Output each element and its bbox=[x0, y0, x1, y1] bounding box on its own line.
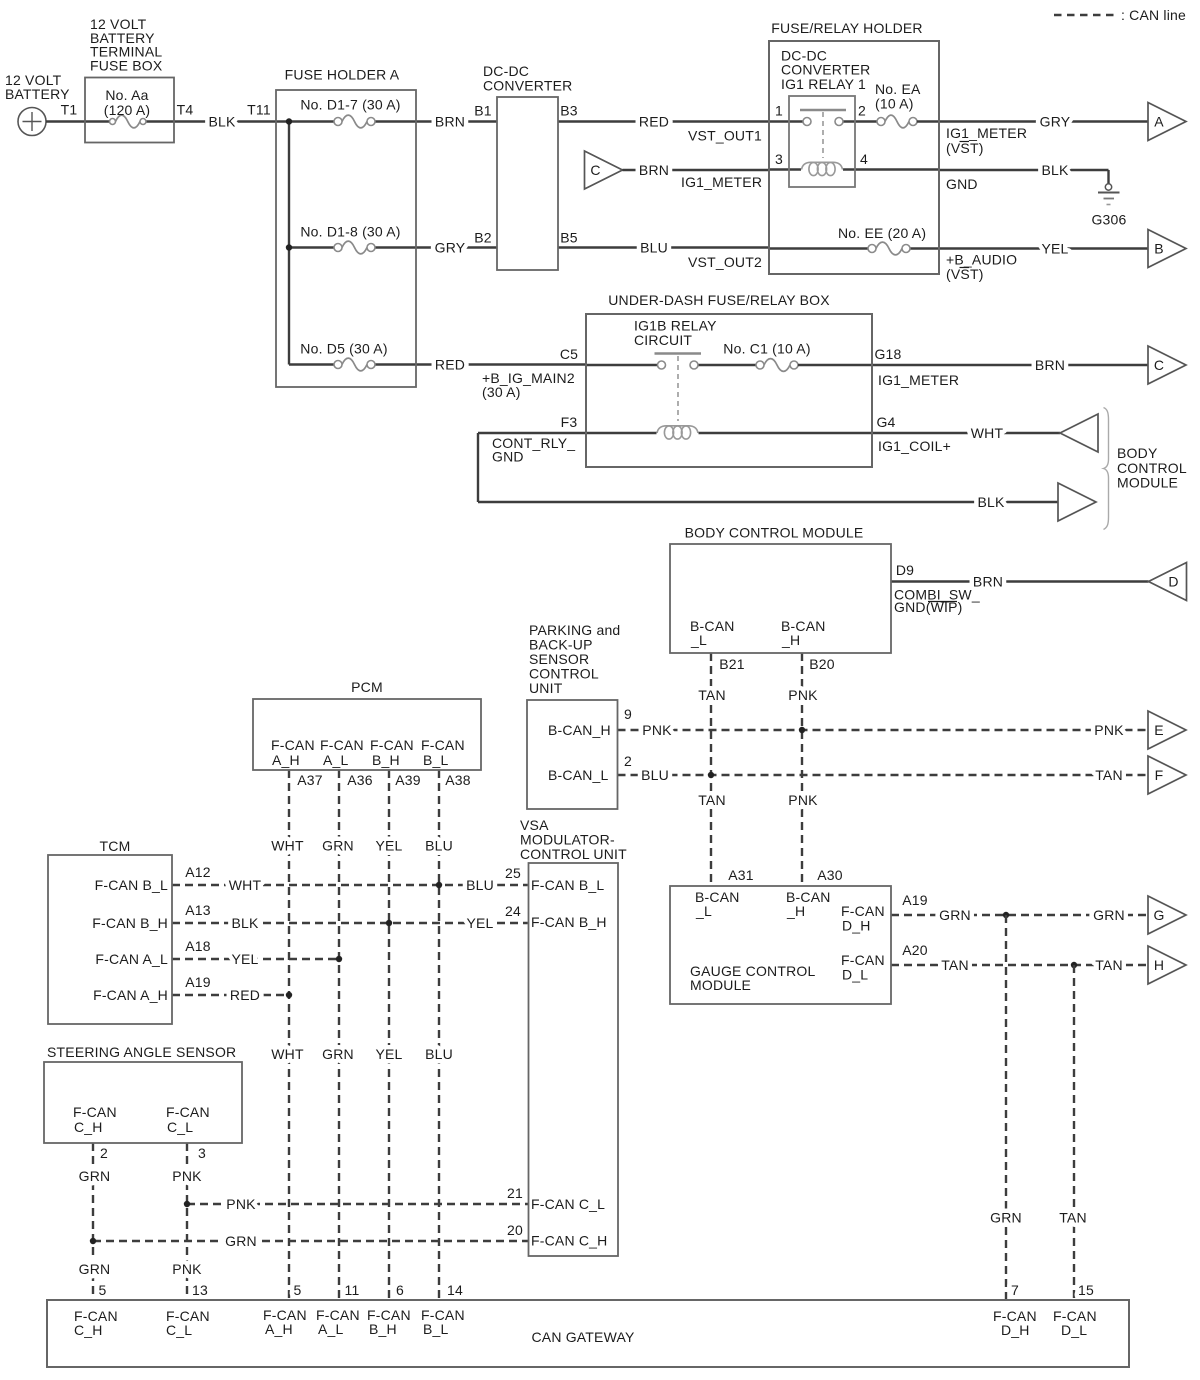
svg-text:F-CAN: F-CAN bbox=[320, 737, 364, 753]
svg-text:: CAN line: : CAN line bbox=[1121, 7, 1186, 23]
junction T11 bus top bbox=[286, 118, 292, 124]
fuse box: 12 VOLT BATTERY TERMINAL FUSE BOX bbox=[85, 16, 174, 143]
svg-text:GRY: GRY bbox=[1040, 114, 1071, 130]
TCM pin F-CAN B_H label bbox=[92, 915, 168, 931]
wire WHT A37 vertical CAN bus bbox=[271, 770, 323, 1301]
CAN GATEWAY pin 11 F-CAN A_L label bbox=[316, 1282, 360, 1337]
junction GRN branch bbox=[1003, 912, 1009, 918]
svg-text:25: 25 bbox=[505, 865, 521, 881]
wire TAN B21 (B-CAN_L vertical) bbox=[698, 653, 745, 886]
CAN GATEWAY box bbox=[47, 1300, 1129, 1367]
svg-text:D_L: D_L bbox=[1061, 1322, 1087, 1338]
svg-text:BLU: BLU bbox=[640, 240, 668, 256]
CAN GATEWAY pin 13 F-CAN C_L label bbox=[166, 1308, 210, 1338]
svg-text:YEL: YEL bbox=[1041, 241, 1068, 257]
svg-text:TAN: TAN bbox=[698, 687, 726, 703]
svg-text:BLK: BLK bbox=[208, 114, 236, 130]
wire A12 WHT/BLU to VSA pin 25 F-CAN B_L bbox=[172, 864, 529, 893]
wire BLK GND to ground G306 bbox=[939, 162, 1109, 192]
pin 1 bbox=[775, 103, 783, 119]
svg-text:No. D5 (30 A): No. D5 (30 A) bbox=[300, 341, 387, 357]
PCM pin F-CAN A_H label bbox=[271, 737, 315, 768]
svg-text:A13: A13 bbox=[185, 902, 211, 918]
svg-text:GRN: GRN bbox=[1093, 907, 1125, 923]
svg-text:B1: B1 bbox=[474, 103, 492, 119]
svg-text:6: 6 bbox=[396, 1282, 404, 1298]
svg-text:GRN: GRN bbox=[322, 1046, 354, 1062]
svg-text:A36: A36 bbox=[347, 772, 373, 788]
svg-text:No. D1-8 (30 A): No. D1-8 (30 A) bbox=[300, 224, 400, 240]
svg-text:VST_OUT1: VST_OUT1 bbox=[688, 128, 762, 144]
svg-text:A39: A39 bbox=[395, 772, 421, 788]
svg-text:H: H bbox=[1154, 957, 1164, 973]
wire BLU A38 vertical CAN bus bbox=[425, 770, 471, 1301]
svg-text:B_H: B_H bbox=[372, 752, 400, 768]
svg-text:A20: A20 bbox=[902, 942, 928, 958]
svg-text:A_L: A_L bbox=[323, 752, 349, 768]
junction PNK branch bbox=[184, 1201, 190, 1207]
svg-text:21: 21 bbox=[507, 1185, 523, 1201]
svg-text:C: C bbox=[590, 162, 600, 178]
relay armature dashed link bbox=[822, 112, 824, 158]
CAN GATEWAY pin 14 F-CAN B_L label bbox=[421, 1282, 465, 1337]
svg-text:F-CAN B_H: F-CAN B_H bbox=[92, 915, 168, 931]
svg-text:B-CAN_L: B-CAN_L bbox=[548, 767, 609, 783]
svg-text:_H: _H bbox=[786, 903, 805, 919]
junction PNK/B20 bbox=[799, 727, 805, 733]
svg-text:RED: RED bbox=[230, 987, 260, 1003]
svg-text:RED: RED bbox=[639, 114, 669, 130]
wire BRN IG1_METER from connector C to fuse/relay holder bbox=[623, 162, 770, 190]
svg-text:C_H: C_H bbox=[74, 1322, 103, 1338]
svg-text:MODULE: MODULE bbox=[1117, 475, 1178, 491]
PARKING pin B-CAN_H label bbox=[548, 722, 611, 738]
svg-text:TAN: TAN bbox=[1095, 767, 1123, 783]
svg-text:GRN: GRN bbox=[939, 907, 971, 923]
svg-text:C_H: C_H bbox=[74, 1119, 103, 1135]
svg-text:A19: A19 bbox=[902, 892, 928, 908]
svg-text:2: 2 bbox=[624, 753, 632, 769]
CAN GATEWAY pin 7 F-CAN D_H label bbox=[993, 1308, 1037, 1338]
svg-text:F-CAN B_H: F-CAN B_H bbox=[531, 914, 607, 930]
svg-text:VST_OUT2: VST_OUT2 bbox=[688, 254, 762, 270]
battery 12 VOLT BATTERY bbox=[5, 72, 70, 136]
svg-text:F-CAN: F-CAN bbox=[166, 1104, 210, 1120]
svg-text:F-CAN: F-CAN bbox=[73, 1104, 117, 1120]
connector H bbox=[1148, 946, 1186, 984]
svg-text:RED: RED bbox=[435, 357, 465, 373]
svg-text:D: D bbox=[1168, 574, 1178, 590]
svg-text:F3: F3 bbox=[561, 414, 578, 430]
CAN GATEWAY pin 5 F-CAN C_H label bbox=[74, 1308, 118, 1338]
svg-text:A31: A31 bbox=[728, 867, 754, 883]
svg-text:BODY: BODY bbox=[1117, 445, 1158, 461]
junction TAN/B21 bbox=[708, 772, 714, 778]
svg-text:C_L: C_L bbox=[166, 1322, 192, 1338]
svg-text:F: F bbox=[1155, 767, 1164, 783]
svg-text:PNK: PNK bbox=[642, 722, 672, 738]
wire GRN pin 2 vertical to CAN GATEWAY pin 5 bbox=[79, 1143, 111, 1301]
GAUGE pin B-CAN_L label bbox=[695, 889, 740, 919]
relay IG1B coil wire F3-G4 bbox=[586, 426, 872, 439]
junction A19/WHT bus bbox=[286, 992, 292, 998]
svg-text:D_H: D_H bbox=[1001, 1322, 1030, 1338]
CAN GATEWAY pin 6 F-CAN B_H label bbox=[367, 1282, 411, 1337]
junction TAN branch bbox=[1071, 962, 1077, 968]
svg-text:F-CAN C_H: F-CAN C_H bbox=[531, 1233, 607, 1249]
svg-text:IG1 RELAY 1: IG1 RELAY 1 bbox=[781, 76, 866, 92]
svg-text:BATTERY: BATTERY bbox=[5, 86, 70, 102]
legend: CAN line dashed sample bbox=[1054, 7, 1186, 23]
svg-text:F-CAN A_H: F-CAN A_H bbox=[93, 987, 168, 1003]
svg-text:PCM: PCM bbox=[351, 679, 383, 695]
svg-text:BLU: BLU bbox=[425, 1046, 453, 1062]
svg-text:FUSE HOLDER A: FUSE HOLDER A bbox=[285, 67, 400, 83]
svg-text:PNK: PNK bbox=[172, 1168, 202, 1184]
svg-text:G18: G18 bbox=[874, 346, 901, 362]
node D9 wire BRN COMBI_SW_GND(WIP) to connector D bbox=[891, 562, 1149, 615]
svg-text:B21: B21 bbox=[719, 656, 745, 672]
svg-text:BLU: BLU bbox=[641, 767, 669, 783]
svg-text:WHT: WHT bbox=[271, 1046, 304, 1062]
svg-text:BLU: BLU bbox=[425, 838, 453, 854]
wire GRN A36 vertical CAN bus bbox=[322, 770, 373, 1301]
node G18 wire BRN IG1_METER to connector C bbox=[872, 346, 1148, 388]
relay coil pins 3-4 bbox=[769, 162, 939, 175]
svg-text:BLK: BLK bbox=[1041, 162, 1069, 178]
svg-text:A37: A37 bbox=[297, 772, 323, 788]
wire YEL +B_AUDIO (VST) to connector B bbox=[939, 241, 1148, 283]
relay IG1B contact bbox=[586, 354, 756, 370]
TCM pin F-CAN B_L label bbox=[95, 877, 168, 893]
pin 4 bbox=[860, 151, 868, 167]
wire GRN vertical to CAN GATEWAY pin 7 bbox=[990, 915, 1022, 1301]
connector triangle WHT (BCM) bbox=[1060, 414, 1098, 452]
svg-text:14: 14 bbox=[447, 1282, 463, 1298]
connector D bbox=[1149, 563, 1187, 601]
VSA pin 25 F-CAN B_L label bbox=[531, 877, 604, 893]
svg-text:F-CAN: F-CAN bbox=[271, 737, 315, 753]
svg-text:PNK: PNK bbox=[172, 1261, 202, 1277]
VSA pin 21 F-CAN C_L label bbox=[531, 1196, 605, 1212]
relay contact pins 1-2 bbox=[769, 110, 877, 126]
svg-text:No. D1-7 (30 A): No. D1-7 (30 A) bbox=[300, 97, 400, 113]
svg-text:BLK: BLK bbox=[231, 915, 259, 931]
svg-text:B_L: B_L bbox=[423, 1321, 449, 1337]
svg-text:E: E bbox=[1154, 722, 1164, 738]
wire BLU B-CAN_L pin 2 to connector F (TAN) bbox=[618, 753, 1149, 783]
svg-text:IG1_METER: IG1_METER bbox=[946, 125, 1027, 141]
svg-text:(120 A): (120 A) bbox=[104, 102, 151, 118]
PARKING pin B-CAN_L label bbox=[548, 767, 609, 783]
svg-text:A12: A12 bbox=[185, 864, 211, 880]
VSA MODULATOR-CONTROL UNIT box bbox=[520, 817, 627, 1256]
pin A30 bbox=[817, 867, 843, 883]
fuse No. EE (20 A) on VST_OUT2 line bbox=[769, 225, 939, 255]
svg-text:A: A bbox=[1154, 114, 1164, 130]
svg-text:PNK: PNK bbox=[788, 792, 818, 808]
wire BRN fuse holder A to DC-DC B1 bbox=[416, 103, 497, 130]
svg-text:IG1_METER: IG1_METER bbox=[878, 372, 959, 388]
wire PNK pin 3 vertical to CAN GATEWAY pin 13 bbox=[172, 1143, 208, 1301]
svg-text:CIRCUIT: CIRCUIT bbox=[634, 332, 692, 348]
connector A bbox=[1148, 103, 1186, 141]
svg-text:No. EE (20 A): No. EE (20 A) bbox=[838, 225, 926, 241]
junction A18/GRN bus bbox=[336, 956, 342, 962]
PCM pin F-CAN B_H label bbox=[370, 737, 414, 768]
svg-text:A_H: A_H bbox=[272, 752, 300, 768]
svg-text:WHT: WHT bbox=[971, 425, 1004, 441]
pin A31 bbox=[728, 867, 754, 883]
ground G306 bbox=[1091, 184, 1126, 228]
wire RED B3 VST_OUT1 to fuse/relay holder bbox=[558, 103, 769, 144]
svg-text:20: 20 bbox=[507, 1222, 523, 1238]
junction A13/YEL bus bbox=[386, 920, 392, 926]
svg-text:B2: B2 bbox=[474, 230, 492, 246]
svg-text:15: 15 bbox=[1078, 1282, 1094, 1298]
svg-text:GRN: GRN bbox=[79, 1168, 111, 1184]
wire GRN to VSA pin 20 F-CAN C_H bbox=[93, 1222, 529, 1249]
svg-text:IG1_COIL+: IG1_COIL+ bbox=[878, 438, 951, 454]
FUSE HOLDER A box bbox=[276, 67, 416, 388]
svg-text:B3: B3 bbox=[560, 103, 578, 119]
svg-text:T4: T4 bbox=[177, 102, 194, 118]
svg-text:T1: T1 bbox=[61, 102, 78, 118]
GAUGE pin F-CAN D_L label bbox=[841, 952, 885, 983]
IG1B RELAY CIRCUIT label bbox=[634, 318, 717, 349]
svg-text:3: 3 bbox=[775, 151, 783, 167]
svg-text:2: 2 bbox=[100, 1145, 108, 1161]
svg-text:TAN: TAN bbox=[1059, 1210, 1087, 1226]
svg-text:GRN: GRN bbox=[322, 838, 354, 854]
BCM pin B-CAN_H label bbox=[781, 618, 826, 648]
TCM pin F-CAN A_L label bbox=[95, 951, 168, 967]
svg-text:F-CAN: F-CAN bbox=[421, 737, 465, 753]
svg-text:WHT: WHT bbox=[271, 838, 304, 854]
svg-text:PNK: PNK bbox=[788, 687, 818, 703]
wire T4 to T11, BLK net bbox=[174, 102, 289, 130]
svg-text:9: 9 bbox=[624, 706, 632, 722]
svg-text:_L: _L bbox=[695, 903, 712, 919]
pin 3 bbox=[775, 151, 783, 167]
svg-text:G: G bbox=[1153, 907, 1164, 923]
wire PNK B-CAN_H pin 9 to connector E bbox=[618, 706, 1149, 738]
svg-text:F-CAN C_L: F-CAN C_L bbox=[531, 1196, 605, 1212]
svg-text:YEL: YEL bbox=[231, 951, 258, 967]
svg-text:B: B bbox=[1154, 241, 1164, 257]
TCM pin F-CAN A_H label bbox=[93, 987, 168, 1003]
wire BLU B5 VST_OUT2 to fuse/relay holder bbox=[558, 230, 769, 271]
svg-text:GND: GND bbox=[946, 176, 978, 192]
wire A13 BLK/YEL to VSA pin 24 F-CAN B_H bbox=[172, 902, 529, 931]
svg-text:FUSE BOX: FUSE BOX bbox=[90, 58, 163, 74]
junction bus middle bbox=[286, 244, 292, 250]
svg-text:(VST): (VST) bbox=[946, 140, 984, 156]
connector E bbox=[1148, 711, 1186, 749]
svg-text:(30 A): (30 A) bbox=[482, 384, 521, 400]
svg-text:5: 5 bbox=[294, 1282, 302, 1298]
svg-text:4: 4 bbox=[860, 151, 868, 167]
svg-text:A18: A18 bbox=[185, 938, 211, 954]
svg-text:GND: GND bbox=[492, 449, 524, 465]
svg-text:11: 11 bbox=[345, 1282, 360, 1298]
svg-text:B5: B5 bbox=[560, 230, 578, 246]
CAN GATEWAY pin 15 F-CAN D_L label bbox=[1053, 1308, 1097, 1338]
svg-text:13: 13 bbox=[192, 1282, 208, 1298]
svg-text:C: C bbox=[1154, 357, 1164, 373]
svg-text:UNDER-DASH FUSE/RELAY BOX: UNDER-DASH FUSE/RELAY BOX bbox=[608, 292, 830, 308]
fuse No. Aa (120 A) bbox=[85, 87, 174, 128]
DC-DC CONVERTER IG1 RELAY 1 label bbox=[781, 48, 870, 93]
svg-text:GRY: GRY bbox=[435, 240, 466, 256]
svg-text:CONTROL UNIT: CONTROL UNIT bbox=[520, 846, 627, 862]
junction A12/BLU bus bbox=[436, 882, 442, 888]
svg-text:No. Aa: No. Aa bbox=[105, 87, 148, 103]
CAN GATEWAY pin 5 F-CAN A_H label bbox=[263, 1282, 307, 1337]
wire GRY fuse holder A to DC-DC B2 bbox=[416, 230, 497, 256]
BCM pin B-CAN_L label bbox=[690, 618, 735, 648]
svg-text:A38: A38 bbox=[445, 772, 471, 788]
svg-text:_H: _H bbox=[781, 632, 800, 648]
wire CONT_RLY_GND F3 loop to BLK bbox=[478, 414, 1058, 510]
connector F bbox=[1148, 756, 1186, 794]
svg-text:F-CAN A_L: F-CAN A_L bbox=[95, 951, 168, 967]
PCM box bbox=[253, 679, 481, 770]
svg-text:D_L: D_L bbox=[842, 967, 868, 983]
svg-text:C5: C5 bbox=[560, 346, 578, 362]
svg-text:D9: D9 bbox=[896, 562, 914, 578]
TCM box bbox=[48, 838, 172, 1024]
fuse No. C1 (10 A) bbox=[723, 341, 872, 372]
svg-text:2: 2 bbox=[858, 103, 866, 119]
svg-text:BLU: BLU bbox=[466, 877, 494, 893]
fuse No. EA (10 A) bbox=[875, 81, 939, 128]
STEERING pin F-CAN C_H label bbox=[73, 1104, 117, 1135]
UNDER-DASH FUSE/RELAY BOX bbox=[586, 292, 872, 467]
svg-text:(VST): (VST) bbox=[946, 266, 984, 282]
svg-text:TCM: TCM bbox=[100, 838, 131, 854]
svg-text:T11: T11 bbox=[247, 102, 271, 118]
svg-text:F-CAN B_L: F-CAN B_L bbox=[95, 877, 168, 893]
STEERING pin F-CAN C_L label bbox=[166, 1104, 210, 1135]
svg-text:BODY CONTROL MODULE: BODY CONTROL MODULE bbox=[685, 525, 864, 541]
svg-text:B-CAN_H: B-CAN_H bbox=[548, 722, 611, 738]
relay IG1B armature dashed link bbox=[677, 356, 679, 421]
svg-text:TAN: TAN bbox=[698, 792, 726, 808]
svg-text:CAN GATEWAY: CAN GATEWAY bbox=[531, 1329, 635, 1345]
brace BODY CONTROL MODULE bbox=[1104, 408, 1187, 530]
svg-text:YEL: YEL bbox=[375, 838, 402, 854]
wire TAN A20 F-CAN D_L to connector H bbox=[891, 942, 1148, 973]
svg-text:1: 1 bbox=[775, 103, 783, 119]
connector G bbox=[1148, 896, 1186, 934]
fuse holder A internal bus wire bbox=[288, 122, 290, 365]
wire GRY IG1_METER (VST) to connector A bbox=[939, 114, 1148, 157]
connector C (from arrow) bbox=[585, 151, 623, 189]
svg-text:GRN: GRN bbox=[225, 1233, 257, 1249]
svg-text:7: 7 bbox=[1011, 1282, 1019, 1298]
svg-text:G4: G4 bbox=[876, 414, 895, 430]
svg-text:BRN: BRN bbox=[639, 162, 669, 178]
svg-text:3: 3 bbox=[198, 1145, 206, 1161]
node G4 wire WHT IG1_COIL+ to body control module bbox=[872, 414, 1060, 454]
fuse No. D1-7 (30 A) bbox=[289, 97, 416, 128]
svg-text:F-CAN: F-CAN bbox=[370, 737, 414, 753]
svg-text:IG1_METER: IG1_METER bbox=[681, 174, 762, 190]
connector triangle BLK (BCM) bbox=[1058, 483, 1096, 521]
svg-text:A_H: A_H bbox=[265, 1321, 293, 1337]
svg-text:5: 5 bbox=[99, 1282, 107, 1298]
svg-text:B_L: B_L bbox=[423, 752, 449, 768]
svg-text:YEL: YEL bbox=[375, 1046, 402, 1062]
wire A18 YEL to GRN bus bbox=[172, 938, 339, 967]
svg-text:F-CAN B_L: F-CAN B_L bbox=[531, 877, 604, 893]
svg-text:PNK: PNK bbox=[226, 1196, 256, 1212]
svg-text:TAN: TAN bbox=[1095, 957, 1123, 973]
svg-text:D_H: D_H bbox=[842, 918, 871, 934]
connector C (under-dash) bbox=[1148, 346, 1186, 384]
svg-text:GRN: GRN bbox=[79, 1261, 111, 1277]
wire TAN vertical to CAN GATEWAY pin 15 bbox=[1059, 965, 1094, 1301]
svg-text:PNK: PNK bbox=[1094, 722, 1124, 738]
GAUGE pin F-CAN D_H label bbox=[841, 903, 885, 934]
svg-text:STEERING ANGLE SENSOR: STEERING ANGLE SENSOR bbox=[47, 1044, 236, 1060]
svg-text:WHT: WHT bbox=[229, 877, 262, 893]
wire PNK to VSA pin 21 F-CAN C_L bbox=[187, 1185, 529, 1212]
svg-text:A_L: A_L bbox=[318, 1321, 344, 1337]
pin 2 bbox=[858, 103, 866, 119]
PCM pin F-CAN A_L label bbox=[320, 737, 364, 768]
svg-text:A30: A30 bbox=[817, 867, 843, 883]
wire GRN A19 F-CAN D_H to connector G bbox=[891, 892, 1148, 923]
svg-text:C_L: C_L bbox=[167, 1119, 193, 1135]
svg-text:No. C1 (10 A): No. C1 (10 A) bbox=[723, 341, 810, 357]
PCM pin F-CAN B_L label bbox=[421, 737, 465, 768]
svg-text:UNIT: UNIT bbox=[529, 680, 563, 696]
svg-text:B_H: B_H bbox=[369, 1321, 397, 1337]
wire A19 RED to WHT bus bbox=[172, 974, 289, 1003]
relay IG1 RELAY 1 box bbox=[789, 96, 855, 187]
svg-text:(10 A): (10 A) bbox=[875, 96, 914, 112]
svg-text:A19: A19 bbox=[185, 974, 211, 990]
svg-text:YEL: YEL bbox=[466, 915, 493, 931]
STEERING ANGLE SENSOR box bbox=[44, 1044, 242, 1143]
connector B bbox=[1148, 230, 1186, 268]
svg-text:BRN: BRN bbox=[1035, 357, 1065, 373]
wire YEL A39 vertical CAN bus bbox=[375, 770, 420, 1301]
wire battery T1 to fuse box (node T1) bbox=[46, 102, 85, 122]
wire RED +B_IG_MAIN2 (30 A) from fuse holder A to under-dash box (node C5) bbox=[416, 346, 586, 400]
svg-text:TAN: TAN bbox=[941, 957, 969, 973]
junction GRN branch bbox=[90, 1238, 96, 1244]
fuse No. D5 (30 A) bbox=[289, 341, 416, 371]
svg-text:_L: _L bbox=[690, 632, 707, 648]
svg-text:B20: B20 bbox=[809, 656, 835, 672]
svg-text:MODULE: MODULE bbox=[690, 977, 751, 993]
svg-text:G306: G306 bbox=[1091, 212, 1126, 228]
wire PNK B20 (B-CAN_H vertical) bbox=[788, 653, 834, 886]
BODY CONTROL MODULE box bbox=[670, 525, 891, 654]
svg-text:BRN: BRN bbox=[435, 114, 465, 130]
GAUGE CONTROL MODULE box bbox=[670, 886, 891, 1004]
VSA pin 24 F-CAN B_H label bbox=[531, 914, 607, 930]
svg-text:FUSE/RELAY HOLDER: FUSE/RELAY HOLDER bbox=[771, 20, 922, 36]
PARKING and BACK-UP SENSOR CONTROL UNIT box bbox=[527, 622, 620, 809]
FUSE/RELAY HOLDER box bbox=[769, 20, 939, 274]
svg-text:GRN: GRN bbox=[990, 1210, 1022, 1226]
DC-DC CONVERTER box bbox=[483, 63, 572, 270]
fuse No. D1-8 (30 A) bbox=[289, 224, 416, 254]
